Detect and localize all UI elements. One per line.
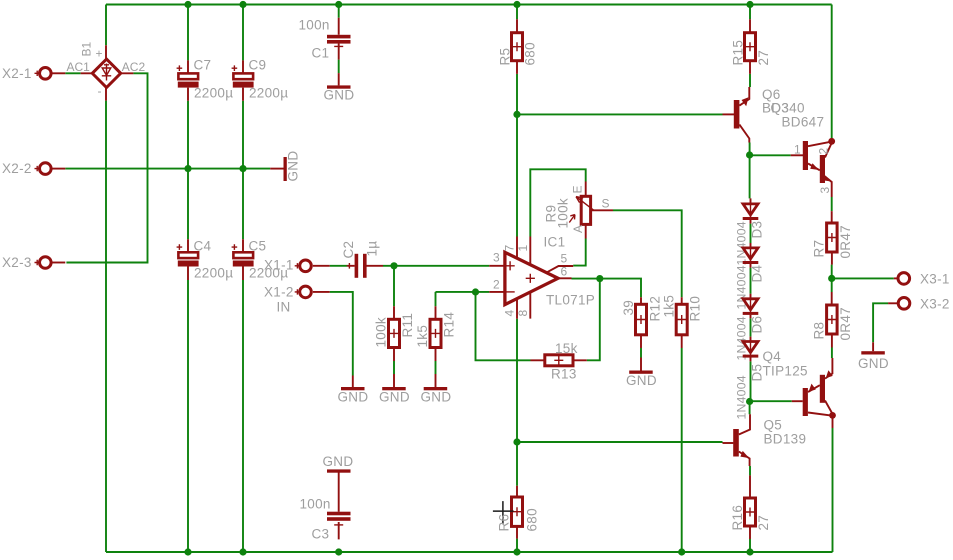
svg-text:GND: GND xyxy=(421,390,452,405)
capacitor C7 2200u xyxy=(177,58,234,101)
resistor R13 15k xyxy=(531,341,587,382)
wire C5 column xyxy=(242,169,244,552)
resistor R15 27 xyxy=(731,19,772,74)
svg-text:Q5: Q5 xyxy=(764,418,783,433)
junction diode top node xyxy=(746,151,753,158)
svg-text:GND: GND xyxy=(626,373,657,388)
wire X1-2 to gnd xyxy=(330,292,353,376)
svg-text:6: 6 xyxy=(561,265,568,279)
wire R10 bottom to rail xyxy=(681,348,683,552)
wire B1 minus down left side xyxy=(105,101,107,552)
svg-text:X3-1: X3-1 xyxy=(920,272,950,287)
svg-text:1k5: 1k5 xyxy=(662,295,677,318)
junction bottom rail R6 xyxy=(513,548,520,555)
wire op-amp pin1 to pot top xyxy=(530,169,585,236)
junction Q6 base tap xyxy=(513,111,520,118)
bridge rectifier B1 xyxy=(67,41,146,100)
transistor Q3 BD647 darlington xyxy=(791,138,835,197)
svg-text:C4: C4 xyxy=(194,239,212,254)
junction X3-1 node xyxy=(828,275,835,282)
resistor R12 39 xyxy=(621,296,663,348)
wire Q6 base xyxy=(517,113,723,115)
wire B1 plus to top rail xyxy=(105,5,107,46)
svg-text:2: 2 xyxy=(493,278,500,292)
junction top rail C1 xyxy=(335,1,342,8)
wire pot bottom to op-amp pin5 xyxy=(573,239,586,266)
wire R12 to gnd xyxy=(640,348,642,358)
svg-text:1: 1 xyxy=(794,143,801,157)
svg-text:5: 5 xyxy=(561,252,568,266)
svg-text:BD647: BD647 xyxy=(782,115,825,130)
svg-text:1µ: 1µ xyxy=(365,241,380,257)
wire R7 to X3 node xyxy=(831,265,833,279)
junction output node xyxy=(596,275,603,282)
terminal X1-2 xyxy=(264,285,330,315)
ground sym below X3-2 xyxy=(858,342,889,371)
potentiometer R9 100k xyxy=(544,182,614,239)
resistor R10 1k5 xyxy=(662,295,703,348)
wire X2-1 to AC1 xyxy=(65,72,80,74)
junction C2 R11 node xyxy=(390,262,397,269)
op-amp IC1 TL071P xyxy=(489,235,595,319)
wire R14 column xyxy=(435,292,437,374)
transistor Q4 TIP125 darlington xyxy=(763,349,836,428)
svg-text:C3: C3 xyxy=(312,527,330,542)
wire X3-2 to gnd xyxy=(873,303,888,342)
diode D4 1N4004 xyxy=(735,243,765,310)
transistor Q6 BD340 xyxy=(723,87,825,143)
wire Q6 collector to node xyxy=(749,143,751,156)
junction diode bottom node xyxy=(746,398,753,405)
svg-text:2200µ: 2200µ xyxy=(194,86,233,101)
junction top rail C9 xyxy=(239,1,246,8)
wire AC2 to X2-3 xyxy=(66,73,147,262)
svg-text:IN: IN xyxy=(277,300,291,315)
svg-text:100k: 100k xyxy=(374,317,389,347)
wire top supply rail xyxy=(106,4,832,6)
wire C7 column xyxy=(187,5,189,169)
ground sym below R12 xyxy=(626,358,657,389)
resistor R16 27 xyxy=(730,475,771,539)
wire R16 bottom to rail xyxy=(749,539,751,552)
svg-text:C1: C1 xyxy=(312,46,330,61)
svg-text:3: 3 xyxy=(818,187,832,194)
wire D4 to D6 xyxy=(750,268,752,294)
inverted ground sym above C3 xyxy=(323,454,354,483)
wire R11 column xyxy=(393,266,395,374)
svg-text:27: 27 xyxy=(756,515,771,531)
resistor R6 680 xyxy=(493,486,540,539)
wire Q5 emitter to R16 xyxy=(749,466,751,475)
wire C4 column xyxy=(187,169,189,552)
wire pot wiper to R10 xyxy=(613,210,682,297)
svg-text:1N4004: 1N4004 xyxy=(735,316,749,360)
svg-text:S: S xyxy=(602,197,610,211)
wire bottom supply rail xyxy=(106,551,833,553)
svg-text:C5: C5 xyxy=(249,239,267,254)
wire X3 node to R8 xyxy=(831,278,833,292)
terminal X2-1 xyxy=(2,66,65,81)
svg-text:0R47: 0R47 xyxy=(838,307,853,340)
svg-text:Q3: Q3 xyxy=(771,101,790,116)
svg-text:TL071P: TL071P xyxy=(546,293,595,308)
wire R6 bottom to rail xyxy=(516,539,518,552)
terminal X2-2 xyxy=(2,161,65,176)
svg-text:GND: GND xyxy=(286,151,301,182)
capacitor C2 1u xyxy=(341,241,383,278)
svg-text:C7: C7 xyxy=(194,58,212,73)
wire D6 to D5 xyxy=(750,318,752,336)
junction gnd rail C7 xyxy=(184,165,191,172)
svg-text:2200µ: 2200µ xyxy=(249,86,288,101)
svg-text:R5: R5 xyxy=(498,48,513,66)
resistor R7 0R47 xyxy=(812,211,854,265)
capacitor C4 2200u xyxy=(177,239,234,281)
svg-text:1k5: 1k5 xyxy=(415,325,430,348)
wire C9 column xyxy=(242,5,244,169)
svg-text:A: A xyxy=(571,225,585,233)
diode D6 1N4004 xyxy=(735,294,765,361)
resistor R11 100k xyxy=(374,306,416,361)
svg-text:AC1: AC1 xyxy=(67,60,91,74)
wire node to Q5 collector xyxy=(749,402,751,415)
wire R14 to op-amp pin2 xyxy=(436,291,490,293)
svg-text:R13: R13 xyxy=(551,367,577,382)
svg-text:R16: R16 xyxy=(730,505,745,531)
svg-text:15k: 15k xyxy=(555,341,578,356)
junction bottom rail C5 xyxy=(239,548,246,555)
svg-text:X3-2: X3-2 xyxy=(920,297,950,312)
svg-text:7: 7 xyxy=(503,245,517,252)
svg-text:8: 8 xyxy=(516,310,530,317)
diode D3 1N4004 xyxy=(735,198,765,265)
svg-text:GND: GND xyxy=(858,356,889,371)
terminal X1-1 xyxy=(264,258,330,273)
svg-text:C2: C2 xyxy=(341,241,356,259)
svg-text:D6: D6 xyxy=(750,316,765,334)
svg-text:R8: R8 xyxy=(812,322,827,340)
svg-text:GND: GND xyxy=(379,390,410,405)
capacitor C1 100n xyxy=(299,18,351,61)
wire C2 to op-amp pin3 xyxy=(383,265,489,267)
svg-text:-: - xyxy=(98,84,102,98)
svg-text:BD139: BD139 xyxy=(764,432,807,447)
svg-text:AC2: AC2 xyxy=(122,60,146,74)
svg-text:C9: C9 xyxy=(249,58,267,73)
svg-text:TIP125: TIP125 xyxy=(763,364,808,379)
terminal X2-3 xyxy=(2,255,65,270)
svg-text:X2-1: X2-1 xyxy=(2,66,32,81)
svg-text:R10: R10 xyxy=(688,296,703,322)
junction top rail C7 xyxy=(184,1,191,8)
junction top rail R15 xyxy=(746,1,753,8)
svg-text:100n: 100n xyxy=(300,497,331,512)
svg-text:GND: GND xyxy=(323,454,354,469)
svg-text:X1-1: X1-1 xyxy=(264,258,294,273)
svg-text:X1-2: X1-2 xyxy=(264,285,294,300)
svg-text:100n: 100n xyxy=(299,18,330,33)
svg-text:Q4: Q4 xyxy=(763,349,782,364)
svg-text:GND: GND xyxy=(324,88,355,103)
svg-text:GND: GND xyxy=(338,390,369,405)
svg-text:X2-3: X2-3 xyxy=(2,255,32,270)
capacitor C9 2200u xyxy=(232,58,289,101)
wire R13 right to output node xyxy=(587,279,600,361)
junction bottom rail C4 xyxy=(184,548,191,555)
ground sym below R14 xyxy=(421,374,452,405)
svg-text:X2-2: X2-2 xyxy=(2,161,32,176)
wire op-amp output node xyxy=(572,279,642,298)
wire X2-2 ground rail xyxy=(65,168,270,170)
svg-text:D4: D4 xyxy=(750,264,765,282)
wire Q3 base xyxy=(750,154,791,156)
wire R5 column V+ to op-amp pin7 xyxy=(516,5,518,237)
svg-text:B1: B1 xyxy=(80,41,94,56)
wire X1-1 to C2 xyxy=(330,265,348,267)
svg-text:680: 680 xyxy=(523,42,538,65)
svg-text:3: 3 xyxy=(493,251,500,265)
svg-text:R15: R15 xyxy=(731,40,746,66)
junction bottom rail C3 xyxy=(335,548,342,555)
junction feedback node xyxy=(472,288,479,295)
wire right top vertical to Q3 collector xyxy=(831,5,833,139)
svg-text:1N4004: 1N4004 xyxy=(735,221,749,265)
svg-text:39: 39 xyxy=(621,300,636,316)
junction Q5 base tap xyxy=(513,438,520,445)
wire op-amp pin4 down to Q5 base node xyxy=(516,319,518,486)
diode D5 1N4004 xyxy=(735,337,765,420)
svg-text:R7: R7 xyxy=(812,240,827,258)
svg-text:27: 27 xyxy=(756,50,771,66)
svg-text:R6: R6 xyxy=(497,514,512,532)
svg-text:R14: R14 xyxy=(442,312,457,338)
ground sym below R11 xyxy=(379,374,410,405)
svg-text:1N4004: 1N4004 xyxy=(735,375,749,419)
terminal X3-2 xyxy=(888,297,950,312)
resistor R14 1k5 xyxy=(415,306,457,361)
wire D3 to D4 xyxy=(750,224,752,243)
svg-text:R11: R11 xyxy=(400,313,415,338)
wire node to D3 xyxy=(749,155,751,198)
terminal X3-1 xyxy=(894,272,950,287)
svg-text:1: 1 xyxy=(516,245,530,252)
ground sym below X1-2 xyxy=(338,376,369,405)
transistor Q5 BD139 xyxy=(723,414,807,466)
svg-text:2: 2 xyxy=(817,148,831,155)
junction gnd rail C9 xyxy=(239,165,246,172)
capacitor C5 2200u xyxy=(232,239,289,281)
resistor R8 0R47 xyxy=(812,292,854,348)
svg-text:D3: D3 xyxy=(750,221,765,239)
wire Q3 emitter to R7 xyxy=(831,197,833,211)
svg-text:IC1: IC1 xyxy=(544,235,566,250)
capacitor C3 100n xyxy=(300,483,351,542)
wire D5 to node xyxy=(750,361,752,401)
wire feedback node down and to R13 xyxy=(476,292,531,360)
svg-text:100k: 100k xyxy=(556,198,571,228)
wire Q4 base xyxy=(750,400,792,402)
svg-text:680: 680 xyxy=(525,508,540,531)
junction bottom rail R10 xyxy=(678,548,685,555)
svg-text:0R47: 0R47 xyxy=(838,225,853,258)
wire node to X3-1 xyxy=(832,277,894,279)
svg-text:+: + xyxy=(96,47,103,61)
ground sym below C1 xyxy=(324,73,355,102)
svg-text:4: 4 xyxy=(503,310,517,317)
resistor R5 680 xyxy=(498,19,538,74)
wire Q5 base xyxy=(517,441,723,443)
junction top rail R5 xyxy=(513,1,520,8)
svg-text:E: E xyxy=(571,185,585,193)
wire C1 column xyxy=(338,5,340,74)
svg-text:R12: R12 xyxy=(648,296,663,322)
wire R8 to Q4 emitter xyxy=(831,348,833,359)
ground sym right end of X2-2 rail xyxy=(270,151,300,182)
wire R15 column xyxy=(749,5,751,88)
junction bottom rail R16 xyxy=(746,548,753,555)
wire Q4 collector to bottom rail xyxy=(832,428,834,552)
svg-text:2200µ: 2200µ xyxy=(194,266,233,281)
